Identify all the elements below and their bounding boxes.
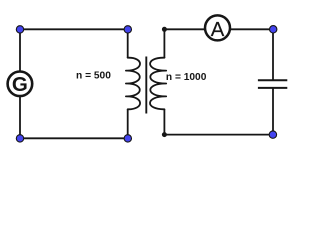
capacitor C1 bottom plate [258, 87, 287, 89]
node: blue terminal bottom of primary [124, 135, 131, 142]
node: blue terminal top of primary [124, 26, 131, 33]
svg-text:A: A [211, 19, 225, 41]
svg-text:n = 500: n = 500 [76, 70, 111, 81]
node: blue terminal bottom-right [269, 131, 276, 138]
wire: left loop bottom [20, 137, 128, 139]
inductor: transformer primary coil [126, 58, 140, 110]
node: junction bottom-left of right loop [162, 132, 167, 137]
wire: left loop left side [19, 29, 21, 138]
svg-text:n = 1000: n = 1000 [166, 72, 207, 83]
svg-text:G: G [12, 73, 28, 96]
wire: left loop top (node between generator and primary) [20, 28, 128, 30]
wire: primary stem bottom [127, 109, 129, 138]
wire: primary stem top [127, 29, 129, 58]
wire: secondary stem top [163, 29, 165, 58]
node: junction top-left of right loop [162, 27, 167, 32]
wire: right loop right side lower lead from capacitor [272, 88, 274, 135]
ammeter A [205, 15, 230, 40]
node: blue terminal top-left [16, 26, 23, 33]
node: blue terminal bottom-left [16, 135, 23, 142]
node: blue terminal top-right [270, 26, 277, 33]
wire: right loop right side upper lead to capacitor [272, 29, 274, 80]
wire: right loop top [164, 28, 273, 30]
generator G (AC source) [8, 72, 33, 97]
inductor: transformer secondary coil [150, 58, 166, 110]
wire: right loop bottom [164, 134, 273, 136]
transformer core [145, 57, 147, 114]
capacitor C1 top plate [258, 79, 287, 81]
wire: secondary stem bottom [163, 109, 165, 135]
